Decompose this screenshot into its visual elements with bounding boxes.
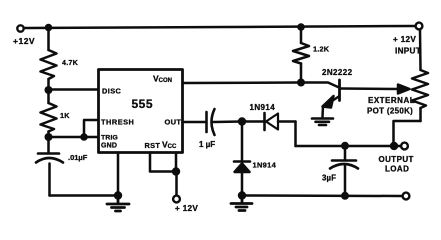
terminal +12V input top-right: [416, 23, 423, 30]
potentiometer external pot 250K: [398, 70, 428, 121]
svg-text:4.7K: 4.7K: [62, 58, 79, 67]
svg-text:+12V: +12V: [13, 36, 35, 46]
svg-text:3µF: 3µF: [322, 174, 336, 183]
svg-text:DISC: DISC: [102, 87, 122, 96]
resistor R1 4.7K: [41, 30, 57, 90]
terminal +12V below VCC: [175, 172, 178, 196]
wire right side down to pot: [419, 30, 422, 71]
wire THRESH hook: [84, 120, 98, 137]
svg-text:TRIG: TRIG: [101, 135, 118, 142]
svg-text:1N914: 1N914: [250, 103, 276, 112]
node junction GND: [114, 191, 122, 199]
wire OUT: [183, 121, 206, 124]
svg-text:+ 12V: + 12V: [393, 35, 416, 44]
svg-text:1K: 1K: [60, 111, 70, 120]
node junction TRIG: [45, 133, 53, 141]
wire top rail: [24, 26, 416, 28]
resistor R2 1K: [41, 90, 57, 137]
terminal output load bottom: [403, 193, 410, 200]
node junction VCON / base: [297, 79, 305, 87]
svg-text:THRESH: THRESH: [101, 118, 134, 127]
wire DISC: [49, 88, 99, 91]
svg-text:LOAD: LOAD: [385, 165, 409, 174]
ground (555 GND pin): [107, 196, 129, 212]
wire GND pin: [117, 153, 120, 196]
svg-text:VCON: VCON: [153, 74, 172, 85]
wire VCON: [183, 81, 302, 84]
svg-text:2N2222: 2N2222: [322, 68, 353, 77]
node junction THRESH hook: [80, 133, 88, 141]
node junction D2 ground: [238, 191, 246, 199]
svg-text:OUT: OUT: [165, 118, 182, 127]
svg-text:1 µF: 1 µF: [199, 140, 215, 149]
svg-text:+ 12V: + 12V: [175, 204, 198, 213]
wire bottom rail: [242, 194, 402, 197]
svg-text:VCC: VCC: [162, 140, 177, 151]
terminal +12V top-left: [17, 25, 23, 31]
IC U1 555 box: [99, 70, 183, 153]
svg-text:RST: RST: [145, 141, 161, 150]
wire RST pin: [150, 153, 176, 172]
svg-text:EXTERNAL: EXTERNAL: [368, 96, 415, 105]
wire D1 to output rail corner: [294, 122, 297, 147]
wire C1 bottom to ground rail: [50, 194, 119, 197]
terminal output load top: [401, 143, 408, 150]
node junction OUT/D1/D2: [238, 117, 246, 125]
node junction C3 top: [341, 142, 349, 150]
svg-text:1N914: 1N914: [253, 161, 277, 170]
svg-text:INPUT: INPUT: [395, 47, 421, 56]
wire VCC pin: [175, 153, 178, 172]
capacitor C3 3uF: [330, 146, 358, 196]
wire pot bottom to output: [394, 121, 421, 146]
svg-text:.01µF: .01µF: [68, 153, 88, 162]
svg-text:POT (250K): POT (250K): [367, 107, 413, 116]
capacitor C2 1uF: [207, 109, 243, 135]
resistor R3 1.2K: [293, 27, 309, 83]
wire TRIG: [49, 136, 99, 139]
svg-text:1.2K: 1.2K: [313, 45, 330, 54]
ground (D2): [231, 196, 252, 211]
wire output top rail: [296, 145, 402, 148]
node junction C3 bottom: [341, 192, 349, 200]
transistor Q1 2N2222: [301, 80, 403, 117]
node junction R1 top: [45, 24, 53, 32]
node junction DISC: [45, 86, 53, 94]
diode D1 1N914 horizontal: [242, 113, 296, 130]
node junction pot bottom: [390, 142, 398, 150]
svg-text:OUTPUT: OUTPUT: [379, 155, 414, 164]
svg-text:555: 555: [132, 97, 154, 111]
node junction VCC/RST: [172, 167, 180, 175]
svg-text:GND: GND: [101, 143, 117, 150]
diode D2 1N914 vertical: [234, 122, 250, 196]
capacitor C1 .01uF: [36, 137, 63, 196]
ground (Q1 emitter): [312, 119, 333, 126]
node junction R3 top: [297, 23, 305, 31]
